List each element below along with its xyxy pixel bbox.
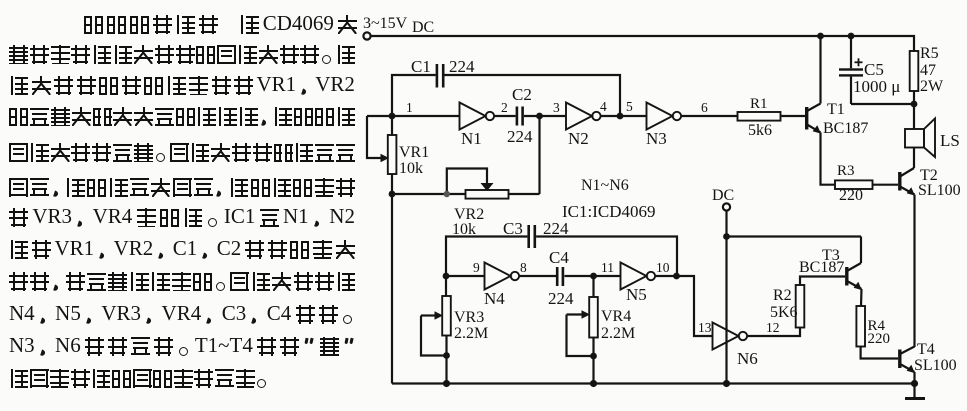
transistor T2 SL100 xyxy=(898,167,961,199)
svg-text:R2: R2 xyxy=(773,287,792,304)
svg-text:1: 1 xyxy=(406,100,413,115)
wire: N1 output to C2 xyxy=(494,115,515,117)
svg-text:N5: N5 xyxy=(626,285,647,304)
svg-text:2W: 2W xyxy=(920,78,944,95)
svg-text:6: 6 xyxy=(701,100,708,115)
svg-text:13: 13 xyxy=(698,320,712,335)
svg-text:BC187: BC187 xyxy=(799,259,844,276)
wire: C1 feedback loop xyxy=(392,75,620,116)
svg-text:1000 μ: 1000 μ xyxy=(853,77,900,96)
wire: T4 emitter to ground rail xyxy=(913,372,915,384)
DC terminal xyxy=(712,187,734,211)
svg-text:R3: R3 xyxy=(837,163,855,179)
wire: +V power rail xyxy=(371,36,914,51)
svg-text:220: 220 xyxy=(839,187,863,204)
resistor R3 xyxy=(835,163,873,204)
node ground rail at VR4 xyxy=(590,380,597,387)
wire: pin3 node down to VR2 right xyxy=(538,116,540,194)
wire: DC terminal down to ground rail (crosses N6) xyxy=(725,211,727,384)
wire: VR4 to ground rail xyxy=(592,356,594,384)
svg-text:224: 224 xyxy=(507,127,533,146)
capacitor C3 xyxy=(503,219,569,248)
wire: ground rail xyxy=(392,382,915,384)
svg-text:N2: N2 xyxy=(568,129,589,148)
inverter N4 xyxy=(484,263,519,309)
inverter N2 xyxy=(566,103,601,149)
node VR1 bottom junction xyxy=(389,191,396,198)
svg-text:4: 4 xyxy=(600,99,607,114)
wire: C5 bottom to R5 bottom node xyxy=(851,103,914,105)
capacitor C2 xyxy=(507,85,533,146)
svg-text:47: 47 xyxy=(920,62,936,79)
wire: N3 output to R1 xyxy=(681,115,737,117)
svg-text:9: 9 xyxy=(473,260,480,275)
svg-text:DC: DC xyxy=(712,187,734,204)
svg-text:T4: T4 xyxy=(917,341,935,358)
node VR3 bottom junction xyxy=(443,352,450,359)
capacitor C4 xyxy=(548,248,574,308)
svg-text:SL100: SL100 xyxy=(914,357,957,374)
svg-text:2: 2 xyxy=(501,100,508,115)
svg-text:2.2M: 2.2M xyxy=(454,325,488,342)
inverter N3 xyxy=(646,103,681,149)
svg-text:LS: LS xyxy=(940,131,960,150)
node VR4 bottom junction xyxy=(590,353,597,360)
potentiometer VR4 xyxy=(567,276,636,356)
wire: C3 feedback loop xyxy=(446,237,677,277)
wire: VR2 right to pin3 column xyxy=(509,193,540,195)
svg-text:BC187: BC187 xyxy=(823,120,868,137)
wire: VR1 bottom to VR2 left xyxy=(392,193,466,195)
wire: speaker to T2 collector xyxy=(913,148,915,169)
svg-text:224: 224 xyxy=(548,289,574,308)
capacitor C5 electrolytic xyxy=(839,36,900,104)
svg-text:VR3: VR3 xyxy=(454,309,484,326)
svg-text:10k: 10k xyxy=(399,160,423,177)
svg-text:3~15V: 3~15V xyxy=(363,15,408,32)
svg-text:R5: R5 xyxy=(920,45,939,62)
node DC junction xyxy=(723,233,730,240)
node VR2 wiper junction xyxy=(444,191,450,197)
svg-text:N4: N4 xyxy=(484,289,505,308)
node 1 junction xyxy=(389,113,396,120)
wire: N4 out to C4 xyxy=(519,275,556,277)
svg-text:T1: T1 xyxy=(827,101,845,118)
svg-text:SL100: SL100 xyxy=(918,182,961,199)
wire: T1 collector to +V rail xyxy=(819,36,821,104)
potentiometer VR2 xyxy=(447,169,509,239)
power terminal 3~15V DC xyxy=(363,15,434,40)
svg-text:N1: N1 xyxy=(461,129,482,148)
svg-text:C2: C2 xyxy=(512,85,532,104)
wire: C4 to N5 input xyxy=(565,275,621,277)
svg-text:224: 224 xyxy=(449,57,475,76)
wire: VR3 to ground rail xyxy=(445,356,447,384)
node R5 bottom junction xyxy=(911,101,918,108)
wire: R4 bottom to T4 base xyxy=(861,347,898,359)
wire: N6 out to R2 bottom xyxy=(747,328,800,337)
wire: R1 to T1 base xyxy=(781,115,806,117)
potentiometer VR1 xyxy=(367,116,429,194)
svg-text:11: 11 xyxy=(601,260,614,275)
node pin11 junction xyxy=(590,273,597,280)
wire: R2 top to T3 base xyxy=(800,277,845,286)
potentiometer VR3 xyxy=(421,276,488,356)
wire: DC node to T3 collector xyxy=(727,235,862,237)
resistor R4 xyxy=(856,306,890,347)
junction on rail at T1 xyxy=(817,33,824,40)
capacitor C1 xyxy=(411,57,475,88)
svg-text:5K6: 5K6 xyxy=(770,304,798,321)
svg-text:IC1:ICD4069: IC1:ICD4069 xyxy=(562,202,656,221)
svg-text:224: 224 xyxy=(543,219,569,238)
resistor R5 xyxy=(910,45,944,104)
svg-text:R1: R1 xyxy=(750,96,768,112)
junction on rail at C5 xyxy=(848,33,855,40)
svg-text:N6: N6 xyxy=(737,349,758,368)
wire: T3 emitter to R4 xyxy=(860,289,863,306)
svg-text:5: 5 xyxy=(626,99,633,114)
wire: C2 to N2 input xyxy=(524,115,566,117)
wire: N5 out to N6 input xyxy=(655,276,712,336)
op-amp U? no: inverter N1 xyxy=(460,103,495,149)
svg-text:8: 8 xyxy=(520,260,527,275)
wire: N2 output to N3 input xyxy=(601,115,647,117)
node ground rail at VR3 xyxy=(443,380,450,387)
wire: T3 collector up to DC line xyxy=(860,237,862,264)
svg-text:C1: C1 xyxy=(411,57,431,76)
transistor T3 BC187 xyxy=(799,247,862,290)
resistor R1 xyxy=(738,96,781,139)
wire: node to N4 input xyxy=(446,275,485,277)
ground xyxy=(905,384,925,399)
svg-text:10: 10 xyxy=(656,260,670,275)
svg-text:3: 3 xyxy=(553,100,560,115)
wire: R3 to T2 base xyxy=(873,184,899,186)
svg-text:VR1: VR1 xyxy=(399,144,429,161)
node ground rail at T4 xyxy=(911,380,918,387)
node ground rail at DC xyxy=(723,380,730,387)
svg-text:VR4: VR4 xyxy=(601,308,631,325)
svg-text:2.2M: 2.2M xyxy=(601,325,635,342)
node pin5 junction xyxy=(617,113,624,120)
svg-text:5k6: 5k6 xyxy=(748,122,772,139)
svg-text:12: 12 xyxy=(766,320,780,335)
svg-text:N1~N6: N1~N6 xyxy=(581,177,629,194)
svg-text:C4: C4 xyxy=(549,248,569,267)
resistor R2 xyxy=(770,285,804,328)
inverter N6 xyxy=(713,323,758,369)
wire: VR1 bottom down to ground rail xyxy=(391,194,393,384)
inverter N5 xyxy=(621,263,656,305)
node pin3 junction xyxy=(536,113,543,120)
speaker LS xyxy=(905,119,960,158)
transistor T4 SL100 xyxy=(898,341,957,374)
svg-text:N3: N3 xyxy=(646,129,667,148)
wire: node to speaker xyxy=(913,104,915,129)
wire: node1 row to N1 input xyxy=(367,115,460,117)
svg-text:DC: DC xyxy=(412,19,434,36)
node pin9 junction xyxy=(443,273,450,280)
wire: T1 emitter down to R3 xyxy=(821,133,836,185)
svg-text:220: 220 xyxy=(868,331,891,347)
svg-text:C3: C3 xyxy=(503,219,523,238)
wire: T2 emitter down to T4 collector xyxy=(913,195,915,348)
node pin10 junction xyxy=(673,273,680,280)
transistor T1 BC187 xyxy=(805,101,868,137)
